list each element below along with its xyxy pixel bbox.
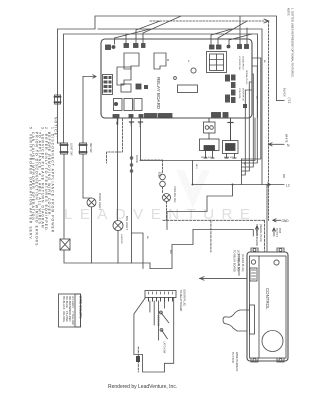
svg-text:RELAY BOARD: RELAY BOARD xyxy=(156,77,161,110)
svg-text:WIRE HARNESS: WIRE HARNESS xyxy=(235,352,238,372)
S1 upper circles xyxy=(205,126,209,130)
svg-text:TO TILT: TO TILT xyxy=(275,228,278,238)
svg-text:NOTE:: NOTE: xyxy=(287,8,291,16)
control slot connector xyxy=(250,305,255,334)
terminal L1 label xyxy=(286,98,292,188)
bottom row relay R7 xyxy=(124,99,133,111)
wire dashed optional rail xyxy=(150,21,269,220)
control connector block xyxy=(250,268,257,281)
svg-text:INTLK SW: INTLK SW xyxy=(201,157,212,159)
wire mid horiz 1 xyxy=(140,118,255,161)
switch SW2 lead down xyxy=(82,154,84,198)
left edge connector pins xyxy=(104,76,112,93)
board top-left pads xyxy=(106,45,111,50)
svg-text:L2 DOOR SW: L2 DOOR SW xyxy=(238,56,240,71)
svg-text:BLACK: BLACK xyxy=(283,88,287,97)
left edge connector outline xyxy=(103,75,113,95)
IC component xyxy=(178,85,198,93)
svg-text:Y-YELLOW: Y-YELLOW xyxy=(71,311,75,325)
wire light1 leads xyxy=(83,198,92,263)
svg-text:RD-1: RD-1 xyxy=(138,122,140,128)
svg-text:WIRE COLORS: WIRE COLORS xyxy=(79,296,83,319)
circle pad xyxy=(191,68,196,73)
relay K3 xyxy=(117,67,131,85)
junction dots xyxy=(192,184,194,186)
pad dark xyxy=(114,102,117,105)
control inner circles xyxy=(251,260,255,264)
control plug label xyxy=(233,250,240,272)
wire left rail A lower xyxy=(57,92,59,143)
transformer T1 xyxy=(207,52,227,73)
svg-text:MON SW: MON SW xyxy=(224,157,234,159)
wire xbox leads xyxy=(64,250,118,263)
watermark logo xyxy=(176,170,210,208)
svg-text:MW LIGHT: MW LIGHT xyxy=(125,216,129,230)
svg-text:WH: WH xyxy=(169,250,171,254)
control module outline xyxy=(247,252,288,361)
svg-text:SERIAL PLUG: SERIAL PLUG xyxy=(245,70,248,85)
thermal fuse TF xyxy=(160,174,166,180)
staircase w2 xyxy=(242,66,258,163)
latch switch 2 xyxy=(160,329,163,332)
wire harness squiggle xyxy=(223,310,250,331)
svg-text:CONTROL: CONTROL xyxy=(238,88,240,99)
latch wire d xyxy=(163,301,165,308)
svg-text:DOOR PLUG: DOOR PLUG xyxy=(242,88,244,101)
wire B drop xyxy=(230,119,232,141)
wire L1 top rail xyxy=(95,16,277,101)
right edge connector labels xyxy=(238,56,248,101)
legend header strip xyxy=(75,294,81,327)
control mounting ear top-right xyxy=(277,248,284,252)
note text top right xyxy=(287,8,295,78)
svg-text:COOLING FAN: COOLING FAN xyxy=(173,186,176,203)
control plug arrow xyxy=(200,277,247,281)
wire L1 terminal stub xyxy=(277,100,285,102)
relay K2 xyxy=(154,53,166,69)
arrows above control xyxy=(256,226,259,236)
fan motor leads dashed xyxy=(163,187,167,220)
dark wire tag xyxy=(136,356,140,362)
svg-text:TILT PCB: TILT PCB xyxy=(231,352,234,363)
control top labels xyxy=(255,224,281,246)
dashed drop mid xyxy=(210,220,212,252)
svg-text:LATCH SW: LATCH SW xyxy=(163,342,166,355)
svg-text:( L1: ( L1 xyxy=(288,98,292,104)
svg-text:1. DOTTED LINES REPRESENT OPTI: 1. DOTTED LINES REPRESENT OPTIONAL FEATU… xyxy=(291,8,295,78)
latch wire a xyxy=(149,301,151,312)
wire step s2 xyxy=(166,212,168,230)
relay board outline xyxy=(101,39,252,118)
wire left rail B xyxy=(64,34,258,118)
component small dark xyxy=(136,84,141,89)
wire strip feed xyxy=(150,230,193,269)
wire L2 rail xyxy=(98,29,262,185)
latch wire c xyxy=(158,301,160,340)
wire drop from board pin 1 xyxy=(117,119,119,124)
GND terminal xyxy=(282,219,290,223)
wire drop from board pin 2 xyxy=(131,119,133,263)
control left labels xyxy=(237,254,244,276)
control mounting ear bottom-left xyxy=(251,358,258,362)
strip label xyxy=(179,290,186,312)
bottom edge pads xyxy=(113,115,119,119)
svg-text:5. VERIFY PROPER OPERATION AFT: 5. VERIFY PROPER OPERATION AFTER SERV. xyxy=(29,127,33,241)
wire control right riser xyxy=(266,185,268,253)
bottom middle connector strip xyxy=(145,291,176,298)
wire L2 terminal stub with arrow xyxy=(267,183,271,186)
strip pin marks inside xyxy=(149,292,173,294)
latch box B xyxy=(223,141,239,154)
staircase collector xyxy=(241,159,243,185)
tiny wire tags xyxy=(115,60,265,254)
S1 connector dark xyxy=(204,146,215,151)
harness label xyxy=(231,352,238,372)
relay K1 xyxy=(124,53,139,69)
svg-text:OR: OR xyxy=(243,162,245,166)
wire drop from board pin 3 xyxy=(140,119,142,160)
latch switch 1 xyxy=(160,311,163,314)
latch wire labels xyxy=(157,315,166,354)
wire mid bus vertical xyxy=(192,161,194,185)
bottom edge connector strip 2 xyxy=(158,114,172,118)
svg-text:WHITE: WHITE xyxy=(285,134,289,143)
board right edge staircase w1 xyxy=(242,58,261,159)
latch box B inner xyxy=(226,144,236,151)
cooling fan motor M1 xyxy=(163,194,171,202)
wire left rail B lower xyxy=(63,92,65,143)
arrow on dashed rail xyxy=(264,19,269,23)
svg-text:RD: RD xyxy=(282,174,286,178)
pin2 connector tick xyxy=(130,121,134,123)
switch labels xyxy=(70,143,94,156)
board top-right pads xyxy=(210,45,215,49)
wire N terminal stub with arrow xyxy=(269,143,285,146)
svg-text:(SERIAL PLUG): (SERIAL PLUG) xyxy=(259,224,262,242)
wire into control top xyxy=(193,230,253,237)
svg-text:(CLEAN PLUG): (CLEAN PLUG) xyxy=(241,254,244,272)
svg-text:LIGHT BR: LIGHT BR xyxy=(120,234,122,244)
wire board-top feeders xyxy=(115,29,151,44)
svg-text:MW SW: MW SW xyxy=(89,143,93,153)
wire color labels right xyxy=(282,88,289,178)
notice text block xyxy=(29,117,58,246)
svg-text:TOD: TOD xyxy=(159,172,161,177)
svg-text:Rendered by LeadVenture, Inc.: Rendered by LeadVenture, Inc. xyxy=(108,384,177,390)
labels under latch boxes xyxy=(201,157,234,159)
latch switch box S1 xyxy=(200,139,220,151)
svg-text:BU: BU xyxy=(146,236,148,239)
switch SW1 lead xyxy=(58,143,65,238)
control buzzer circle xyxy=(262,331,283,352)
dashed latch line xyxy=(137,347,139,372)
wire colors legend box xyxy=(59,294,81,327)
relay K4 xyxy=(121,84,131,92)
bottom right connector strip xyxy=(212,113,221,118)
bottom edge connector strip 1 xyxy=(145,114,157,118)
control mounting ear bottom-right xyxy=(277,358,284,362)
B pin stubs xyxy=(225,154,236,159)
staircase w4 xyxy=(242,82,253,171)
latch wire b xyxy=(153,301,155,325)
switch SW2 xyxy=(80,143,87,154)
wire mid bus horizontal xyxy=(193,184,285,186)
lamp B2 xyxy=(113,221,123,231)
GND arrow xyxy=(273,219,281,222)
S1 box link xyxy=(208,133,210,139)
wire lamp B2 leads xyxy=(117,119,120,263)
svg-text:CLEAN PLUG: CLEAN PLUG xyxy=(242,56,245,70)
component X-box xyxy=(60,239,70,250)
door latch body outline xyxy=(134,298,174,373)
svg-text:PCB: PCB xyxy=(278,228,281,233)
wire mid lower left xyxy=(132,233,144,269)
svg-text:LIGHT SW: LIGHT SW xyxy=(70,143,74,156)
svg-text:DOOR: DOOR xyxy=(135,155,139,163)
control inner body xyxy=(250,256,287,358)
wire step s1 xyxy=(167,185,233,212)
switch SW1 xyxy=(61,143,68,154)
svg-text:TO RELAY BOARD: TO RELAY BOARD xyxy=(237,254,240,276)
wire left rail A xyxy=(58,29,96,92)
dashed run to thermal xyxy=(141,160,163,173)
S1 pin stubs xyxy=(204,151,214,159)
wire bottom left run xyxy=(118,262,150,264)
wire S1 drop xyxy=(208,119,210,122)
svg-text:L2: L2 xyxy=(286,184,290,188)
bottom row relay R8 xyxy=(134,99,142,111)
latch box S1 upper xyxy=(204,122,216,133)
svg-text:TO RELAY BOARD: TO RELAY BOARD xyxy=(233,250,236,272)
wire strip feed left xyxy=(149,263,151,269)
junction node xyxy=(83,75,96,78)
svg-text:OVEN LIGHT: OVEN LIGHT xyxy=(98,193,102,210)
staircase w5 xyxy=(242,90,253,175)
staircase w3 xyxy=(242,74,254,167)
pin3 connector tick xyxy=(139,121,143,123)
bottom row relay R6 xyxy=(114,99,123,111)
svg-text:(DOOR PLUG): (DOOR PLUG) xyxy=(183,290,186,307)
right edge connector blocks xyxy=(225,75,247,109)
svg-text:CONTROL: CONTROL xyxy=(265,288,270,310)
control mounting ear top-left xyxy=(251,248,258,252)
svg-text:DOOR SW: DOOR SW xyxy=(157,315,159,327)
oven light B1 xyxy=(87,198,96,207)
svg-text:GND: GND xyxy=(282,219,290,223)
svg-text:GY-GRAY: GY-GRAY xyxy=(71,296,75,308)
fuse F1 xyxy=(55,95,61,104)
dashed drop from board xyxy=(107,119,123,163)
left column connector dots xyxy=(130,157,133,160)
wire to switch 2 xyxy=(82,77,84,144)
svg-text:TO RELAY BOARD: TO RELAY BOARD xyxy=(179,290,182,312)
legend rows xyxy=(62,296,75,325)
dashed gnd run xyxy=(163,220,265,251)
control divider line xyxy=(258,256,260,358)
connector strip pins xyxy=(149,298,173,302)
